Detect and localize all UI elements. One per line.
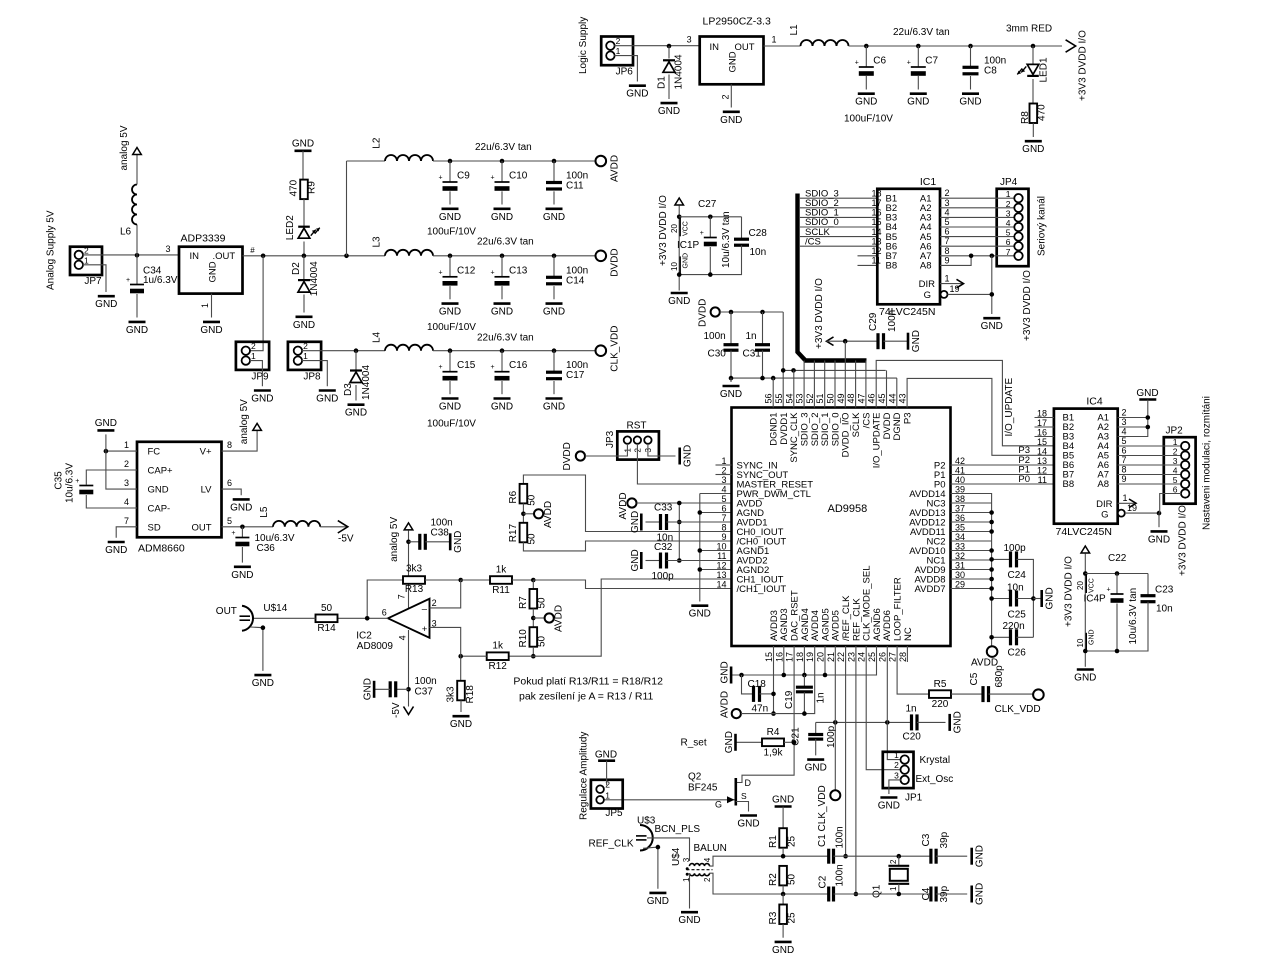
svg-text:GND: GND [439, 307, 461, 318]
wire JP2 pin6 to G net [1160, 494, 1182, 514]
svg-text:GND: GND [439, 212, 461, 223]
wire JP6 pin2 to LP2950 IN [614, 45, 699, 47]
wire bus SDIO_3 to IC1 B1 [799, 197, 877, 199]
svg-text:50: 50 [321, 603, 333, 614]
svg-text:5: 5 [1122, 436, 1127, 446]
capacitor C24 100p [992, 558, 1011, 560]
svg-text:+: + [855, 60, 859, 67]
svg-text:49: 49 [836, 393, 846, 403]
wire IC1 A7 to JP4 pin7 [940, 255, 1015, 257]
svg-text:GND: GND [975, 845, 986, 867]
port AVDD divider R6 [534, 509, 543, 518]
capacitor C4 39p [929, 887, 932, 902]
svg-text:+: + [75, 478, 79, 485]
svg-text:-5V: -5V [391, 702, 402, 718]
wire pin45 DVDD [886, 370, 888, 407]
resistor R7 50 [532, 580, 534, 589]
wire pin51 serial [824, 361, 826, 408]
stub SYNC_IN pin1 [716, 464, 732, 466]
svg-text:GND: GND [724, 731, 735, 753]
wire PWR_DWM_CTL pin4 [700, 493, 732, 495]
node AVDD branch [344, 254, 349, 259]
svg-text:GND: GND [626, 89, 648, 100]
svg-text:GND: GND [208, 261, 219, 282]
wire bus SCLK to IC1 B5 [799, 236, 877, 238]
svg-text:10u/6.3V tan: 10u/6.3V tan [1128, 588, 1139, 645]
capacitor C34 1u/6.3V [136, 255, 138, 284]
wire U$3 shield to GND [643, 847, 658, 889]
svg-text:C14: C14 [566, 275, 585, 286]
svg-text:19: 19 [950, 284, 960, 294]
ground IC1 G [983, 317, 1000, 320]
capacitor C32 100p [646, 560, 661, 562]
svg-text:G: G [924, 290, 931, 301]
wire R11 node to pin14 [533, 580, 731, 589]
ground line AGND bottom [731, 646, 876, 675]
svg-text:NC: NC [903, 627, 914, 641]
inductor L3 [385, 250, 433, 256]
svg-text:C19: C19 [784, 690, 795, 709]
svg-text:46: 46 [867, 393, 877, 403]
svg-text:GND: GND [200, 325, 222, 336]
svg-text:12: 12 [716, 561, 726, 571]
svg-text:+: + [700, 230, 704, 237]
node R13 R11 [458, 578, 463, 583]
svg-text:GND: GND [439, 402, 461, 413]
ground R3 [775, 941, 792, 944]
svg-text:L4: L4 [372, 331, 383, 343]
svg-text:CLK_VDD: CLK_VDD [995, 704, 1041, 715]
svg-text:2: 2 [1122, 408, 1127, 418]
svg-text:1: 1 [303, 351, 308, 361]
LED2 [303, 199, 305, 227]
ground IC4 G [1157, 511, 1162, 516]
svg-text:R1: R1 [768, 835, 779, 848]
wire IC1 A1 to JP4 pin1 [940, 197, 1015, 199]
resistor R3 25 [782, 894, 784, 905]
svg-text:2: 2 [1006, 199, 1011, 209]
svg-text:VCC: VCC [1089, 578, 1096, 593]
buffer IC4 74LVC245N [1054, 409, 1118, 524]
svg-text:10n: 10n [1007, 583, 1024, 594]
AGND vertical distribution [699, 494, 701, 602]
ground AGND distribution [691, 604, 708, 607]
ground ADP3339 [203, 321, 220, 324]
ground C16 [494, 397, 511, 400]
svg-text:C31: C31 [743, 349, 762, 360]
svg-text:GND: GND [363, 678, 374, 700]
svg-text:1k: 1k [496, 565, 508, 576]
port AVDD right [987, 646, 998, 657]
svg-text:analog 5V: analog 5V [239, 399, 250, 444]
svg-text:GND: GND [658, 106, 680, 117]
svg-text:39p: 39p [939, 831, 950, 848]
connector JP4 [997, 189, 1029, 266]
svg-text:GND: GND [126, 325, 148, 336]
svg-text:47: 47 [856, 393, 866, 403]
voltage regulator ADP3339 [179, 247, 243, 294]
transistor Q2 BF245 [734, 778, 737, 806]
wire pin44 DGND [896, 378, 898, 407]
svg-text:+3V3 DVDD I/O: +3V3 DVDD I/O [1064, 556, 1075, 627]
svg-text:C3: C3 [921, 833, 932, 846]
svg-text:4: 4 [398, 635, 408, 640]
svg-text:JP5: JP5 [605, 808, 623, 819]
svg-text:ADM8660: ADM8660 [138, 543, 185, 555]
ground D3 [348, 403, 365, 406]
svg-text:GND: GND [95, 299, 117, 310]
svg-text:470: 470 [1037, 104, 1048, 121]
wire L5 to -5V [320, 526, 346, 528]
svg-text:5: 5 [227, 516, 232, 526]
port DVDD decoupling [711, 307, 720, 316]
svg-text:GND: GND [491, 402, 513, 413]
svg-text:IC1P: IC1P [677, 240, 700, 251]
svg-text:R17: R17 [508, 523, 519, 542]
wire AVDD6 pin26 to JP1 pin1 [887, 646, 901, 760]
svg-text:LV: LV [201, 485, 213, 496]
wire LOOP_FILTER pin27 to R5 [897, 646, 929, 694]
svg-text:10: 10 [1076, 638, 1085, 647]
svg-text:4: 4 [1122, 427, 1127, 437]
capacitor C22 10u/6.3V tan [1115, 571, 1120, 576]
ground C37 [373, 681, 376, 698]
capacitor C20 1n [910, 714, 913, 730]
svg-text:12: 12 [1037, 465, 1047, 475]
svg-text:G: G [715, 800, 722, 810]
svg-text:IN: IN [710, 42, 720, 53]
wire CLK_MODE_SEL pin24 to JP1 pin2 [866, 646, 901, 770]
wire V+ pin8 to analog 5V [222, 431, 258, 451]
divider R6 R17 CH0 [523, 475, 731, 532]
svg-text:1,9k: 1,9k [764, 747, 784, 758]
node D1 junction [667, 44, 672, 49]
wire pin53 serial [803, 361, 805, 408]
svg-text:3: 3 [682, 857, 691, 862]
svg-text:GND: GND [728, 51, 739, 72]
node A7 A8 [969, 254, 974, 259]
capacitor C23 10n [1147, 574, 1149, 596]
ground D2 [296, 315, 313, 318]
svg-text:GND: GND [855, 97, 877, 108]
svg-text:U$3: U$3 [637, 816, 656, 827]
connector JP6 Logic Supply [601, 37, 633, 66]
svg-text:220n: 220n [1003, 621, 1025, 632]
svg-text:P3: P3 [903, 413, 914, 425]
svg-text:52: 52 [805, 393, 815, 403]
arrow IC4 DIR pin1 [1118, 502, 1134, 504]
svg-text:9: 9 [721, 532, 726, 542]
ground C15 [442, 397, 459, 400]
wire inverting input [430, 580, 461, 608]
arrow +3V3 IC4P [1081, 546, 1090, 553]
capacitor C7 22u/6.3V [916, 44, 921, 49]
svg-text:JP9: JP9 [251, 372, 269, 383]
svg-text:R3: R3 [768, 911, 779, 924]
svg-text:100p: 100p [652, 571, 675, 582]
svg-text:LP2950CZ-3.3: LP2950CZ-3.3 [703, 15, 771, 27]
ground C17 [546, 397, 563, 400]
capacitor C1 100n [827, 849, 830, 864]
wire opamp pin4 down to -5V [408, 630, 410, 707]
svg-text:GND: GND [630, 549, 641, 571]
wire AVDD5 pin21 to CLK_VDD port [834, 646, 836, 790]
BNC connector U$3 BCN_PLS REF_CLK [640, 825, 653, 851]
resistor R17 50 [520, 523, 528, 543]
svg-text:8: 8 [945, 246, 950, 256]
wire bus SDIO_1 to IC1 B3 [799, 216, 877, 218]
svg-text:C6: C6 [873, 56, 886, 67]
wire LP2950 OUT to L1 [764, 45, 801, 47]
port DVDD [596, 251, 607, 262]
svg-text:1n: 1n [816, 692, 827, 703]
wire AVDD line bottom [741, 646, 815, 714]
stub NC pin28 [906, 646, 908, 662]
wire AVDD to pin5 [637, 502, 732, 504]
svg-text:22u/6.3V tan: 22u/6.3V tan [477, 333, 534, 344]
svg-text:Logic Supply: Logic Supply [578, 17, 589, 74]
svg-text:GND: GND [316, 394, 338, 405]
wire up to AVDD rail [346, 161, 348, 256]
wire AGND4 pin18 and C19 [803, 646, 805, 675]
svg-text:10n: 10n [1156, 604, 1173, 615]
svg-text:50: 50 [826, 393, 836, 403]
svg-text:+: + [1106, 587, 1110, 594]
connector JP3 RST [617, 431, 659, 459]
svg-text:R2: R2 [768, 873, 779, 886]
svg-text:21: 21 [826, 652, 836, 662]
wire IC4P VCC line [1085, 573, 1148, 575]
svg-text:GND: GND [907, 97, 929, 108]
svg-text:GND: GND [345, 408, 367, 419]
svg-text:6: 6 [721, 504, 726, 514]
wire U$3 center to balun pin3 [647, 838, 690, 861]
wire JP6 pin1 to GND [614, 56, 637, 82]
svg-text:22: 22 [836, 652, 846, 662]
svg-text:2: 2 [124, 459, 129, 469]
svg-text:C21: C21 [791, 727, 802, 746]
svg-text:14: 14 [716, 580, 726, 590]
ground C9 [442, 208, 459, 211]
resistor R8 470 [1030, 104, 1038, 124]
svg-text:LED1: LED1 [1039, 57, 1050, 82]
svg-text:20: 20 [670, 224, 679, 233]
wire LP2950 pin2 to GND [730, 84, 732, 107]
svg-text:GND: GND [1045, 587, 1056, 609]
JP4 pin 1 [1014, 194, 1022, 202]
node AVDD divider R7 R10 [531, 616, 536, 621]
svg-text:GND: GND [292, 138, 314, 149]
inductor L4 [385, 345, 433, 351]
port CLK_VDD right [1033, 689, 1044, 700]
svg-text:50: 50 [527, 533, 538, 545]
wire pin56 DGND1 [772, 378, 774, 407]
wire ADP3339 OUT along DVDD rail [243, 255, 386, 257]
svg-text:54: 54 [784, 393, 794, 403]
svg-text:GND: GND [678, 915, 700, 926]
svg-text:6: 6 [227, 478, 232, 488]
svg-text:11: 11 [1038, 475, 1047, 485]
svg-text:GND: GND [805, 763, 827, 774]
svg-text:+3V3 DVDD I/O: +3V3 DVDD I/O [1022, 270, 1033, 341]
svg-text:51: 51 [815, 393, 825, 403]
wire JP3 pin3 to GND [648, 444, 676, 456]
capacitor C19 1n [803, 675, 805, 687]
svg-text:C25: C25 [1008, 610, 1027, 621]
svg-text:+: + [438, 269, 442, 276]
JP4 pin 6 [1014, 242, 1022, 250]
svg-text:GND: GND [95, 418, 117, 429]
svg-text:GND: GND [720, 115, 742, 126]
svg-text:IC2: IC2 [356, 630, 372, 641]
node C37 [406, 687, 411, 692]
connector JP5 Regulace Amplitudy [591, 780, 623, 809]
capacitor C35 10u/6.3V [86, 470, 137, 485]
ground JP8 [319, 389, 336, 392]
capacitor C2 100n [827, 887, 830, 902]
svg-text:47n: 47n [752, 704, 769, 715]
svg-text:10: 10 [670, 262, 679, 271]
svg-text:GND: GND [683, 253, 690, 269]
wire JP7 pin1 to GND [83, 265, 106, 292]
ground JP3 rotated [678, 448, 681, 465]
port AVDD bottom [732, 709, 741, 718]
svg-text:GND: GND [543, 402, 565, 413]
stubs IC4 B1-B3 [1035, 417, 1054, 419]
connector JP7 Analog Supply 5V [70, 247, 102, 275]
buffer IC1 74LVC245N [877, 189, 940, 304]
svg-text:56: 56 [764, 393, 774, 403]
svg-text:2: 2 [251, 341, 256, 351]
wire IC1 A2 to JP4 pin2 [940, 207, 1015, 209]
ground IC1P [678, 275, 680, 291]
svg-text:JP1: JP1 [905, 793, 923, 804]
svg-text:C33: C33 [654, 503, 673, 514]
wire /REF_CLK pin22 [845, 646, 847, 856]
svg-text:GND: GND [720, 661, 731, 683]
svg-text:6: 6 [945, 227, 950, 237]
svg-text:26: 26 [877, 652, 887, 662]
svg-text:GND: GND [543, 212, 565, 223]
svg-text:AVDD: AVDD [618, 492, 629, 519]
svg-text:L3: L3 [372, 236, 383, 248]
svg-text:pak zesílení je A = R13 / R11: pak zesílení je A = R13 / R11 [519, 691, 654, 703]
svg-text:1N4004: 1N4004 [674, 54, 685, 89]
node C38 [406, 540, 411, 545]
svg-text:U$14: U$14 [263, 603, 287, 614]
wire bus SDIO_2 to IC1 B2 [799, 207, 877, 209]
stub IC1 B7 pin12 [858, 255, 878, 257]
svg-text:Analog Supply 5V: Analog Supply 5V [46, 210, 57, 290]
wire JP9 pin1 to GND [250, 361, 263, 387]
svg-text:+3V3 DVDD I/O: +3V3 DVDD I/O [814, 278, 825, 349]
svg-text:JP3: JP3 [605, 430, 616, 448]
crystal Q1 [897, 854, 902, 859]
bus serial thick [798, 194, 867, 361]
svg-text:15: 15 [764, 652, 774, 662]
svg-text:2: 2 [894, 760, 899, 770]
capacitor C30 100n [730, 312, 732, 344]
svg-text:1: 1 [616, 46, 621, 56]
svg-text:BCN_PLS: BCN_PLS [655, 824, 701, 835]
svg-text:R6: R6 [508, 490, 519, 503]
svg-text:+: + [126, 277, 130, 284]
svg-text:GND: GND [689, 609, 711, 620]
ground C36 [234, 565, 251, 568]
wire balun pin1 to GND [689, 873, 691, 908]
ground C38 [449, 533, 452, 550]
capacitor C11 [552, 159, 557, 164]
svg-text:C36: C36 [257, 543, 276, 554]
svg-text:100n: 100n [835, 864, 846, 886]
svg-text:100uF/10V: 100uF/10V [427, 227, 476, 238]
port AVDD [596, 156, 607, 167]
svg-text:19: 19 [805, 652, 815, 662]
svg-text:1: 1 [124, 440, 129, 450]
wire AGND2 pin12 [700, 569, 732, 571]
LED1 3mm red [1031, 44, 1036, 49]
svg-text:44: 44 [887, 393, 897, 403]
svg-text:C27: C27 [698, 199, 717, 210]
svg-text:43: 43 [898, 393, 908, 403]
svg-text:C22: C22 [1108, 553, 1127, 564]
node D3 [354, 348, 359, 353]
svg-text:+: + [907, 60, 911, 67]
svg-text:D2: D2 [291, 262, 302, 275]
svg-text:+3V3 DVDD I/O: +3V3 DVDD I/O [658, 195, 669, 266]
svg-text:45: 45 [877, 393, 887, 403]
node R2 rail2 [781, 892, 786, 897]
svg-text:CAP-: CAP- [148, 504, 171, 515]
svg-text:C16: C16 [509, 360, 528, 371]
svg-text:6: 6 [382, 608, 387, 618]
svg-text:4: 4 [124, 497, 129, 507]
svg-text:16: 16 [1037, 427, 1047, 437]
svg-text:GND: GND [293, 320, 315, 331]
capacitor C16 [500, 348, 505, 353]
capacitor C10 [500, 159, 505, 164]
stub SYNC_OUT pin2 [716, 474, 732, 476]
ground C34 [129, 321, 146, 324]
connector JP2 [1164, 437, 1196, 504]
node R11 R7 [531, 578, 536, 583]
ground DGND symbol [730, 378, 732, 382]
wire JP3 pin2 to MASTER_RESET pin3 [637, 444, 731, 484]
svg-text:50: 50 [537, 597, 548, 609]
arrow +3V3 DVDD IO left [827, 337, 834, 346]
wire pin54 SYNC_CLK [793, 370, 795, 407]
wire noninverting input [430, 627, 461, 656]
svg-text:8: 8 [227, 440, 232, 450]
svg-text:7: 7 [397, 594, 407, 599]
ground C20 rotated [948, 714, 951, 731]
svg-text:Q1: Q1 [872, 884, 883, 898]
node R6 R17 AVDD [521, 512, 526, 517]
wire IC4 A4 to JP2 pin1 [1118, 445, 1182, 447]
connector JP9 [236, 342, 269, 370]
capacitor C31 1n [762, 312, 764, 344]
BNC connector U$14 OUT [242, 606, 253, 631]
svg-text:2: 2 [84, 245, 89, 255]
resistor R11 1k [461, 579, 490, 581]
svg-text:C28: C28 [749, 228, 768, 239]
capacitor C12 [448, 254, 453, 259]
svg-text:C30: C30 [708, 349, 727, 360]
svg-text:GND: GND [1148, 534, 1170, 545]
svg-text:+: + [438, 175, 442, 182]
resistor R14 50 output [338, 617, 388, 619]
wire AGND1 pin10 [700, 550, 732, 552]
